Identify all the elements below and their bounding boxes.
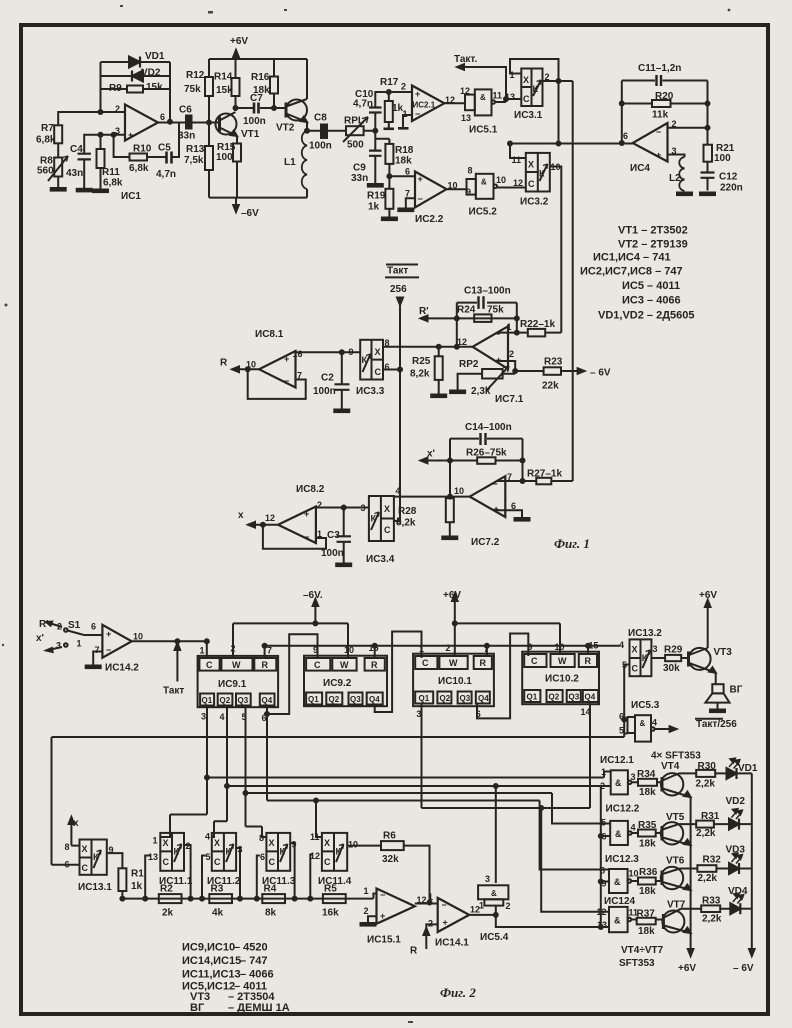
diode VD1: [129, 51, 165, 68]
svg-text:−: −: [415, 109, 420, 119]
svg-text:5: 5: [619, 726, 624, 736]
svg-text:VT2: VT2: [276, 123, 295, 134]
svg-text:– 6V: – 6V: [590, 368, 611, 379]
resistor R18: [385, 144, 413, 167]
svg-text:R37: R37: [637, 909, 656, 920]
svg-text:+: +: [284, 354, 289, 364]
LED VD1: [727, 759, 758, 780]
svg-text:C: C: [523, 94, 530, 104]
svg-text:7: 7: [95, 645, 100, 655]
svg-text:x: x: [238, 510, 244, 521]
resistor R7: [36, 123, 62, 146]
resistor R35: [632, 820, 662, 850]
svg-text:R25: R25: [412, 356, 431, 367]
svg-text:−: −: [656, 127, 661, 137]
svg-text:10: 10: [448, 181, 458, 191]
svg-text:R: R: [371, 660, 378, 670]
svg-text:R4: R4: [264, 884, 277, 895]
svg-text:C: C: [82, 863, 89, 873]
wire: R-prime line and C13 loop: [296, 303, 585, 409]
svg-text:10: 10: [555, 642, 565, 652]
svg-text:+: +: [415, 89, 420, 99]
svg-text:ИС14,ИС15: ИС14,ИС15: [182, 955, 241, 967]
svg-text:R35: R35: [638, 820, 657, 831]
svg-text:&: &: [640, 719, 646, 728]
wire: IC14.2 ground and output clock line: [93, 641, 207, 681]
svg-text:2: 2: [57, 622, 62, 632]
svg-text:Такт/256: Такт/256: [696, 719, 737, 730]
ground: [431, 395, 446, 398]
resistor R10: [129, 144, 152, 175]
svg-text:C: C: [422, 658, 429, 668]
svg-text:R2: R2: [160, 884, 173, 895]
svg-text:C: C: [269, 857, 276, 867]
svg-text:+: +: [656, 150, 661, 160]
wire: IC10.1 pin connections: [477, 634, 528, 719]
svg-text:ИС9.2: ИС9.2: [323, 678, 352, 689]
svg-text:Q2: Q2: [549, 692, 560, 701]
resistor R6: [347, 831, 429, 903]
svg-text:Q1: Q1: [308, 695, 319, 704]
svg-text:ИС13.2: ИС13.2: [628, 628, 662, 639]
ground: [384, 128, 395, 131]
svg-text:&: &: [615, 829, 622, 839]
svg-text:X: X: [324, 838, 330, 848]
svg-text:C5: C5: [158, 143, 171, 154]
svg-text:C7: C7: [250, 93, 263, 104]
analog switch IC3.2: [512, 153, 561, 208]
NAND gate IC5.2: [466, 166, 506, 218]
wire: Takt arrow and flip-flop links: [457, 59, 633, 481]
diode VD2: [132, 68, 161, 82]
wire: IC14.1 output to IC5.4 and IC12.4: [469, 906, 601, 927]
svg-text:L1: L1: [284, 157, 296, 168]
svg-text:9: 9: [602, 879, 607, 889]
svg-text:Q3: Q3: [569, 692, 580, 701]
svg-text:+: +: [380, 911, 385, 921]
svg-text:R: R: [410, 946, 418, 957]
capacitor C13: [464, 286, 511, 309]
ground: [336, 564, 351, 567]
resistor R20: [652, 91, 674, 121]
svg-text:18k: 18k: [639, 839, 656, 850]
svg-text:SFT353: SFT353: [619, 958, 655, 969]
svg-text:Такт: Такт: [387, 266, 408, 277]
resistor R5: [322, 884, 346, 919]
svg-text:R10: R10: [133, 144, 152, 155]
inductor L2: [669, 157, 685, 191]
resistor R28: [396, 498, 454, 528]
svg-text:11k: 11k: [652, 110, 669, 121]
svg-text:X: X: [632, 645, 638, 655]
svg-text:VT5: VT5: [666, 812, 685, 823]
svg-text:2k: 2k: [162, 908, 174, 919]
svg-text:C13–100n: C13–100n: [464, 286, 511, 297]
svg-text:ИС4: ИС4: [630, 163, 650, 174]
svg-text:3: 3: [238, 845, 243, 855]
svg-text:−: −: [493, 479, 498, 489]
svg-text:2,3k: 2,3k: [471, 386, 491, 397]
svg-text:9: 9: [466, 187, 471, 197]
resistor R37: [631, 909, 663, 938]
ground: [515, 518, 530, 521]
svg-text:ИС124: ИС124: [604, 896, 636, 907]
resistor R11: [97, 149, 123, 189]
svg-text:ИС12.3: ИС12.3: [605, 854, 639, 865]
transistor VT1: [216, 112, 260, 140]
svg-text:11: 11: [512, 155, 522, 165]
svg-text:X: X: [163, 838, 169, 848]
op-amp IC15.1: [364, 886, 427, 946]
svg-text:8: 8: [385, 338, 390, 348]
svg-text:VD4: VD4: [728, 886, 748, 897]
wire: IC9.2 pin connections: [375, 632, 422, 713]
svg-text:VT4: VT4: [661, 761, 680, 772]
op-amp IC14.1: [428, 892, 480, 949]
svg-text:R36: R36: [639, 867, 658, 878]
svg-text:ИС14.2: ИС14.2: [105, 663, 139, 674]
svg-text:+: +: [304, 509, 309, 519]
transistor VT7: [662, 900, 690, 934]
resistor R33: [681, 896, 730, 925]
svg-text:W: W: [340, 660, 349, 670]
svg-text:C3: C3: [327, 530, 340, 541]
svg-text:8: 8: [65, 842, 70, 852]
svg-text:ИС1: ИС1: [121, 191, 141, 202]
svg-text:1: 1: [479, 901, 484, 911]
svg-text:9: 9: [349, 347, 354, 357]
svg-text:+: +: [128, 130, 133, 140]
svg-text:ИС3 – 4066: ИС3 – 4066: [622, 295, 681, 307]
svg-text:16: 16: [293, 349, 303, 359]
parts list figure 2: [182, 942, 290, 1015]
svg-text:1: 1: [507, 322, 512, 332]
svg-text:1: 1: [403, 109, 408, 119]
resistor R27: [527, 469, 562, 485]
svg-text:256: 256: [390, 284, 407, 295]
svg-text:R32: R32: [703, 855, 722, 866]
svg-text:X: X: [528, 160, 534, 170]
svg-text:11: 11: [493, 91, 503, 101]
svg-text:R16: R16: [251, 72, 270, 83]
svg-text:560: 560: [37, 166, 54, 177]
analog switch IC11.1: [148, 833, 193, 887]
resistor R15: [216, 142, 241, 163]
svg-text:ИС5.2: ИС5.2: [469, 207, 498, 218]
svg-text:R7: R7: [41, 123, 54, 134]
svg-text:Q4: Q4: [262, 696, 273, 705]
svg-text:2: 2: [545, 72, 550, 82]
resistor R4: [262, 884, 285, 919]
svg-text:Q4: Q4: [369, 695, 380, 704]
capacitor C12: [701, 172, 743, 194]
svg-text:6: 6: [260, 852, 265, 862]
svg-text:R: R: [585, 656, 592, 666]
svg-text:ИС3.2: ИС3.2: [520, 197, 549, 208]
svg-text:10: 10: [348, 840, 358, 850]
svg-text:R: R: [480, 658, 487, 668]
svg-text:2: 2: [401, 82, 406, 92]
svg-text:RPL: RPL: [344, 116, 364, 127]
-6V supply: [233, 205, 259, 219]
svg-text:1: 1: [601, 767, 606, 777]
svg-text:ИС3.4: ИС3.4: [366, 554, 395, 565]
capacitor C8: [309, 113, 332, 152]
capacitor C4: [66, 144, 91, 179]
svg-text:15k: 15k: [216, 85, 233, 96]
svg-text:22k: 22k: [542, 381, 559, 392]
resistor R34: [632, 769, 663, 798]
svg-text:L2: L2: [669, 173, 681, 184]
wire: IC9.1 pin connections: [207, 623, 318, 714]
resistor R31: [679, 811, 729, 839]
svg-text:6,8k: 6,8k: [103, 178, 123, 189]
svg-text:– 4066: – 4066: [240, 969, 274, 981]
svg-text:3: 3: [361, 503, 366, 513]
svg-text:R29: R29: [664, 645, 683, 656]
svg-text:ИС2.1: ИС2.1: [413, 101, 436, 110]
LED VD2: [726, 796, 752, 830]
svg-text:VT1: VT1: [241, 129, 260, 140]
wire: supply rails and interconnects: [209, 49, 346, 212]
svg-text:Q1: Q1: [419, 694, 430, 703]
svg-text:C12: C12: [719, 172, 738, 183]
svg-text:5: 5: [206, 852, 211, 862]
resistor R24: [457, 305, 504, 322]
svg-text:R1: R1: [131, 869, 144, 880]
svg-text:2: 2: [364, 906, 369, 916]
ground: [93, 190, 108, 193]
svg-text:R19: R19: [367, 191, 386, 202]
wire: bus Q4 row: [267, 714, 609, 870]
wire: IC10.2 pin connections, R bus: [265, 646, 621, 808]
svg-text:X: X: [375, 347, 381, 357]
svg-text:C: C: [531, 656, 538, 666]
analog switch IC11.3: [259, 833, 297, 887]
svg-text:&: &: [480, 93, 486, 102]
svg-text:2: 2: [115, 104, 120, 114]
svg-text:C: C: [632, 664, 639, 674]
svg-text:– ДЕМШ 1А: – ДЕМШ 1А: [228, 1002, 290, 1014]
svg-text:4: 4: [220, 712, 225, 722]
svg-text:4× SFT353: 4× SFT353: [651, 751, 701, 762]
svg-text:S1: S1: [68, 620, 81, 631]
svg-text:500: 500: [347, 140, 364, 151]
svg-text:R5: R5: [324, 884, 337, 895]
wire: emitter +6V rail: [678, 797, 696, 974]
op-amp IC14.2: [91, 622, 143, 674]
svg-text:R20: R20: [655, 91, 674, 102]
svg-text:4k: 4k: [212, 908, 224, 919]
svg-text:18k: 18k: [639, 787, 656, 798]
op-amp IC8.2: [265, 484, 325, 543]
svg-text:xʹ: xʹ: [36, 633, 44, 644]
analog switch IC13.2: [619, 628, 662, 676]
svg-text:–6V.: –6V.: [303, 590, 323, 601]
svg-text:32k: 32k: [382, 854, 399, 865]
resistor R16: [251, 72, 278, 96]
svg-text:10: 10: [551, 162, 561, 172]
svg-text:C: C: [163, 857, 170, 867]
svg-text:12: 12: [460, 86, 470, 96]
node Takt/256 output: [695, 719, 737, 730]
svg-text:16k: 16k: [322, 908, 339, 919]
svg-text:1: 1: [200, 646, 205, 656]
svg-text:−: −: [380, 890, 385, 900]
svg-text:ИС12.2: ИС12.2: [606, 804, 640, 815]
svg-text:4: 4: [631, 823, 636, 833]
svg-text:R3: R3: [211, 884, 224, 895]
potentiometer RP2: [459, 359, 509, 397]
svg-text:−: −: [495, 329, 500, 339]
svg-text:R30: R30: [698, 761, 717, 772]
svg-text:1: 1: [153, 836, 158, 846]
svg-text:RP2: RP2: [459, 359, 479, 370]
svg-text:VT3: VT3: [714, 647, 733, 658]
NAND gate IC5.4: [478, 874, 510, 943]
wire: IC3.4 output to IC7.2, C14 loop, X' line: [394, 439, 573, 536]
svg-text:100: 100: [216, 152, 233, 163]
wire: IC8.2 output, feedback, input: [248, 508, 369, 564]
svg-text:–6V: –6V: [241, 208, 259, 219]
svg-text:+: +: [496, 355, 501, 365]
svg-text:C: C: [384, 525, 391, 535]
ground: [368, 184, 383, 187]
svg-text:3: 3: [56, 641, 61, 651]
svg-text:C: C: [206, 660, 213, 670]
LED VD4: [728, 886, 752, 914]
NAND gate IC5.1: [460, 86, 502, 136]
svg-text:+6V: +6V: [443, 590, 461, 601]
NAND gate IC12.4: [597, 896, 639, 932]
svg-text:ИС11,ИС13: ИС11,ИС13: [182, 969, 241, 981]
ground: [677, 193, 692, 196]
ground: [398, 209, 413, 212]
svg-text:3: 3: [201, 712, 206, 722]
counter IC10.1: [413, 643, 494, 719]
svg-text:12: 12: [457, 337, 467, 347]
loudspeaker BG: [705, 673, 742, 712]
transistor VT3: [689, 647, 733, 673]
svg-text:– 4520: – 4520: [234, 942, 268, 954]
transistor VT2: [276, 99, 307, 134]
svg-text:7,5k: 7,5k: [184, 155, 204, 166]
svg-text:Q3: Q3: [238, 696, 249, 705]
resistor R14: [214, 72, 240, 97]
svg-text:Q1: Q1: [202, 696, 213, 705]
svg-text:6: 6: [602, 832, 607, 842]
svg-text:6: 6: [511, 501, 516, 511]
wire: LED -6V rail: [733, 773, 755, 974]
counter IC9.1: [198, 644, 279, 724]
svg-text:2: 2: [186, 841, 191, 851]
svg-text:+6V: +6V: [230, 36, 248, 47]
analog switch IC13.1: [65, 840, 114, 894]
svg-text:ИС1,ИС4 – 741: ИС1,ИС4 – 741: [593, 252, 671, 264]
svg-text:R33: R33: [702, 896, 721, 907]
svg-text:R22–1k: R22–1k: [520, 319, 555, 330]
ground: [334, 410, 349, 413]
svg-text:6: 6: [619, 712, 624, 722]
switch S1: [36, 619, 102, 652]
svg-text:W: W: [449, 658, 458, 668]
svg-text:6: 6: [385, 362, 390, 372]
svg-text:ИС7.1: ИС7.1: [495, 394, 524, 405]
svg-text:R: R: [262, 660, 269, 670]
capacitor C11: [638, 63, 681, 86]
NAND gate IC12.2: [601, 804, 640, 846]
svg-text:+: +: [494, 504, 499, 514]
svg-text:ИС9.1: ИС9.1: [218, 679, 247, 690]
svg-text:18k: 18k: [638, 926, 655, 937]
svg-text:12: 12: [513, 178, 523, 188]
svg-text:ИС15.1: ИС15.1: [367, 935, 401, 946]
svg-text:+6V: +6V: [699, 590, 717, 601]
svg-text:1: 1: [510, 70, 515, 80]
svg-text:C: C: [375, 367, 382, 377]
svg-text:2: 2: [509, 349, 514, 359]
svg-text:12: 12: [445, 95, 455, 105]
resistor R17: [380, 77, 404, 122]
svg-text:C6: C6: [179, 105, 192, 116]
+6V supply: [230, 36, 248, 57]
svg-text:18k: 18k: [639, 886, 656, 897]
op-amp IC8.1: [246, 329, 303, 388]
svg-text:Q2: Q2: [220, 696, 231, 705]
svg-text:&: &: [491, 889, 497, 898]
capacitor C9: [351, 151, 382, 184]
resistor R29: [663, 645, 683, 675]
svg-text:−: −: [304, 532, 309, 542]
analog switch IC11.2: [205, 832, 243, 888]
svg-text:R14: R14: [214, 72, 233, 83]
node x input: [69, 817, 79, 846]
svg-text:2,2k: 2,2k: [698, 873, 718, 884]
ground: [382, 218, 397, 221]
svg-text:ИС13.1: ИС13.1: [78, 882, 112, 893]
resistor R1: [118, 868, 144, 892]
svg-text:2,2k: 2,2k: [696, 828, 716, 839]
svg-text:18k: 18k: [395, 156, 412, 167]
svg-text:4: 4: [205, 832, 210, 842]
svg-text:VD3: VD3: [726, 845, 746, 856]
svg-text:ИС10.2: ИС10.2: [545, 674, 579, 685]
svg-text:R: R: [220, 358, 228, 369]
svg-text:– 6V: – 6V: [733, 963, 754, 974]
svg-text:33n: 33n: [178, 131, 195, 142]
resistor R3: [209, 884, 232, 919]
NAND gate IC12.1: [600, 755, 636, 794]
svg-text:3: 3: [653, 644, 658, 654]
svg-text:W: W: [558, 656, 567, 666]
svg-text:– 747: – 747: [240, 955, 268, 967]
svg-text:2: 2: [672, 119, 677, 129]
svg-text:R23: R23: [544, 357, 563, 368]
op-amp IC4: [623, 119, 677, 174]
svg-text:C9: C9: [353, 163, 366, 174]
resistor R2: [159, 884, 182, 919]
svg-text:VT1 – 2Т3502: VT1 – 2Т3502: [618, 225, 688, 237]
ground: [398, 127, 409, 130]
svg-text:+: +: [443, 918, 448, 928]
svg-text:ИС5.3: ИС5.3: [631, 700, 660, 711]
svg-text:ИС8.1: ИС8.1: [255, 329, 284, 340]
+6V supply: [443, 590, 560, 656]
svg-text:2: 2: [506, 901, 511, 911]
inductor L1: [284, 131, 307, 189]
svg-text:−: −: [442, 900, 447, 910]
resistor R12: [184, 70, 213, 96]
